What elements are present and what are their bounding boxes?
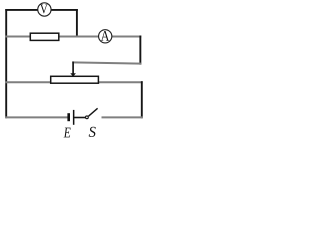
wire: mid vertical from top row down to ammeter row [76, 9, 78, 37]
wire: slider tap horizontal (gray) [72, 62, 141, 63]
ammeter A [99, 30, 112, 43]
wire: right vertical from ammeter row down to slider tap wire [139, 36, 141, 65]
wire: far right vertical from rheostat row down to bottom row [141, 81, 143, 118]
wire: stub from battery to switch pivot (black) [74, 117, 85, 119]
wire: ammeter row horizontal (gray) [5, 35, 141, 37]
wire: top row from left corner to voltmeter [5, 9, 37, 11]
wire: left vertical bus [5, 9, 7, 118]
switch: pivot circle [86, 116, 89, 119]
resistor R (fixed resistor in ammeter row) [30, 33, 59, 40]
wire: top row from voltmeter to mid vertical [51, 9, 78, 11]
wire: rheostat row right segment (gray) [98, 81, 143, 83]
label S (switch) [89, 127, 96, 137]
battery: short thick negative plate [67, 113, 70, 121]
rheostat body (slide rheostat) [51, 76, 99, 83]
voltmeter V [38, 3, 51, 16]
wire: rheostat row left segment (gray) [5, 81, 51, 83]
battery: long thin positive plate [73, 110, 75, 125]
wire: bottom row right of switch (gray) [102, 116, 143, 118]
rheostat slider arrow [70, 62, 76, 77]
wire: bottom row left of battery (gray) [5, 116, 67, 118]
label E (battery) [64, 128, 71, 138]
switch: lever arm [89, 108, 98, 116]
